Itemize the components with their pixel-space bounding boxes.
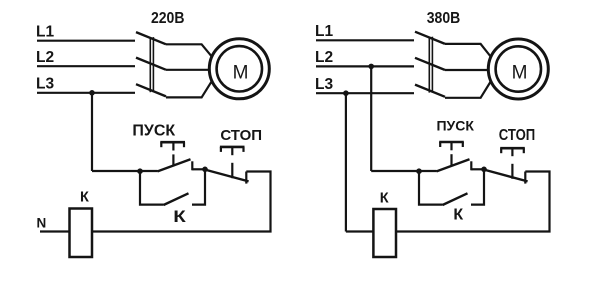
svg-text:L3: L3 — [315, 76, 333, 93]
svg-text:N: N — [37, 216, 47, 231]
svg-text:220В: 220В — [151, 10, 185, 27]
svg-text:L1: L1 — [315, 23, 333, 40]
svg-text:ПУСК: ПУСК — [132, 123, 175, 140]
svg-text:СТОП: СТОП — [499, 127, 536, 144]
svg-text:К: К — [453, 207, 463, 224]
svg-text:L3: L3 — [36, 76, 54, 93]
svg-text:L2: L2 — [315, 49, 333, 66]
svg-text:L1: L1 — [36, 24, 54, 41]
svg-text:M: M — [512, 63, 528, 84]
svg-text:К: К — [173, 208, 187, 226]
svg-text:ПУСК: ПУСК — [436, 118, 474, 134]
svg-text:К: К — [380, 191, 389, 207]
svg-text:M: M — [233, 62, 249, 83]
svg-text:К: К — [80, 189, 89, 205]
svg-text:СТОП: СТОП — [220, 127, 262, 144]
svg-text:380В: 380В — [427, 10, 461, 27]
svg-text:L2: L2 — [36, 49, 54, 66]
